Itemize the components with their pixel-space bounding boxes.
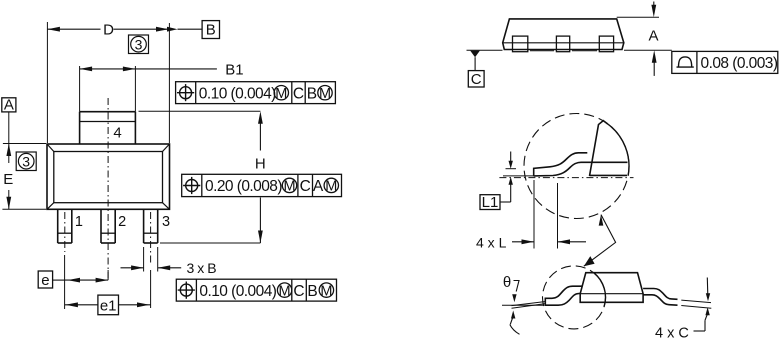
svg-text:C: C [300, 178, 311, 195]
svg-text:e: e [41, 272, 49, 289]
svg-text:C: C [293, 86, 304, 103]
svg-text:C: C [471, 71, 482, 88]
svg-text:2: 2 [118, 214, 126, 230]
svg-text:A: A [4, 96, 14, 113]
svg-text:H: H [255, 156, 266, 173]
svg-text:3 x B: 3 x B [187, 260, 217, 276]
svg-text:4 x C: 4 x C [655, 326, 689, 340]
svg-text:M: M [279, 283, 291, 299]
svg-text:θ: θ [503, 274, 511, 291]
svg-text:A: A [648, 28, 658, 45]
svg-text:M: M [325, 179, 337, 195]
svg-text:E: E [3, 171, 13, 188]
svg-text:M: M [275, 86, 287, 102]
svg-text:3: 3 [22, 153, 30, 169]
svg-text:0.08 (0.003): 0.08 (0.003) [701, 55, 778, 72]
svg-text:A: A [313, 178, 324, 195]
svg-text:1: 1 [75, 214, 83, 230]
svg-text:C: C [293, 283, 304, 300]
svg-text:0.10 (0.004): 0.10 (0.004) [199, 283, 276, 300]
svg-text:B: B [206, 22, 216, 39]
svg-text:3: 3 [135, 36, 143, 52]
svg-text:3: 3 [162, 214, 170, 230]
svg-text:4: 4 [113, 125, 121, 142]
svg-text:M: M [320, 283, 332, 299]
svg-text:M: M [319, 86, 331, 102]
svg-text:0.10 (0.004): 0.10 (0.004) [199, 86, 276, 103]
svg-text:4 x L: 4 x L [476, 234, 507, 250]
svg-text:D: D [103, 22, 114, 39]
svg-text:e1: e1 [100, 297, 117, 314]
svg-text:B: B [307, 283, 317, 300]
svg-text:L1: L1 [482, 194, 499, 211]
svg-text:B1: B1 [225, 61, 243, 78]
svg-text:M: M [283, 179, 295, 195]
svg-text:0.20 (0.008): 0.20 (0.008) [205, 178, 282, 195]
svg-text:B: B [307, 86, 317, 103]
